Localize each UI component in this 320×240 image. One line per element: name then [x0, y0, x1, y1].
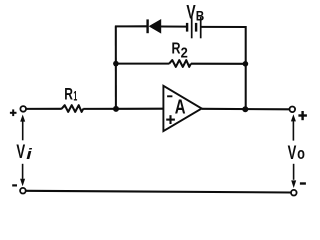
wire diode to battery: [161, 25, 186, 27]
resistor R2 zigzag: [169, 60, 191, 67]
label R1: [64, 84, 77, 103]
minus sign bottom-left: [12, 184, 17, 186]
svg-text:o: o: [297, 145, 305, 163]
diode D1: [148, 19, 162, 34]
plus sign top-left: [10, 109, 17, 116]
terminal input - (bottom left): [20, 188, 26, 194]
svg-text:1: 1: [73, 88, 77, 103]
label VB: [186, 2, 204, 23]
terminal output + (top right): [290, 107, 296, 113]
svg-text:B: B: [196, 8, 205, 24]
label R2: [172, 40, 188, 61]
wire R1 to op-amp input: [83, 108, 163, 110]
Vi voltage arrow lower: [20, 164, 25, 187]
node: junction R2-right on vertical: [243, 61, 249, 67]
svg-text:R: R: [64, 84, 73, 103]
svg-text:R: R: [172, 40, 181, 57]
Vo voltage arrow upper: [291, 114, 296, 140]
minus sign bottom-right: [300, 182, 306, 184]
node: junction R2-left on vertical: [113, 61, 119, 67]
wire R2 left segment: [116, 63, 169, 65]
terminal input + (top left): [20, 106, 26, 112]
svg-text:V: V: [16, 141, 25, 163]
Vo voltage arrow lower: [291, 164, 296, 188]
wire top loop left vertical: [115, 26, 117, 109]
battery VB: [187, 17, 201, 39]
wire bottom rail: [26, 191, 291, 193]
svg-text:A: A: [175, 97, 186, 119]
wire R2 right segment: [191, 63, 246, 65]
resistor R1 zigzag: [62, 105, 84, 112]
svg-text:2: 2: [181, 45, 188, 62]
wire top left segment: [115, 25, 147, 27]
wire battery to top right corner: [202, 27, 246, 109]
terminal output - (bottom right): [291, 190, 297, 196]
wire op-amp output: [202, 108, 290, 111]
label Vo: [288, 142, 305, 164]
op-amp U1 triangle: [163, 86, 201, 131]
wire input terminal to R1: [26, 108, 62, 110]
plus sign top-right: [298, 111, 307, 120]
Vi voltage arrow upper: [20, 115, 25, 141]
svg-text:V: V: [186, 2, 196, 23]
label Vi: [16, 141, 32, 163]
op-amp plus sign: [166, 115, 175, 124]
node: junction input wire / feedback: [113, 106, 119, 112]
node: junction output wire / feedback: [242, 106, 248, 112]
op-amp minus sign: [167, 95, 172, 97]
svg-text:V: V: [288, 142, 297, 164]
